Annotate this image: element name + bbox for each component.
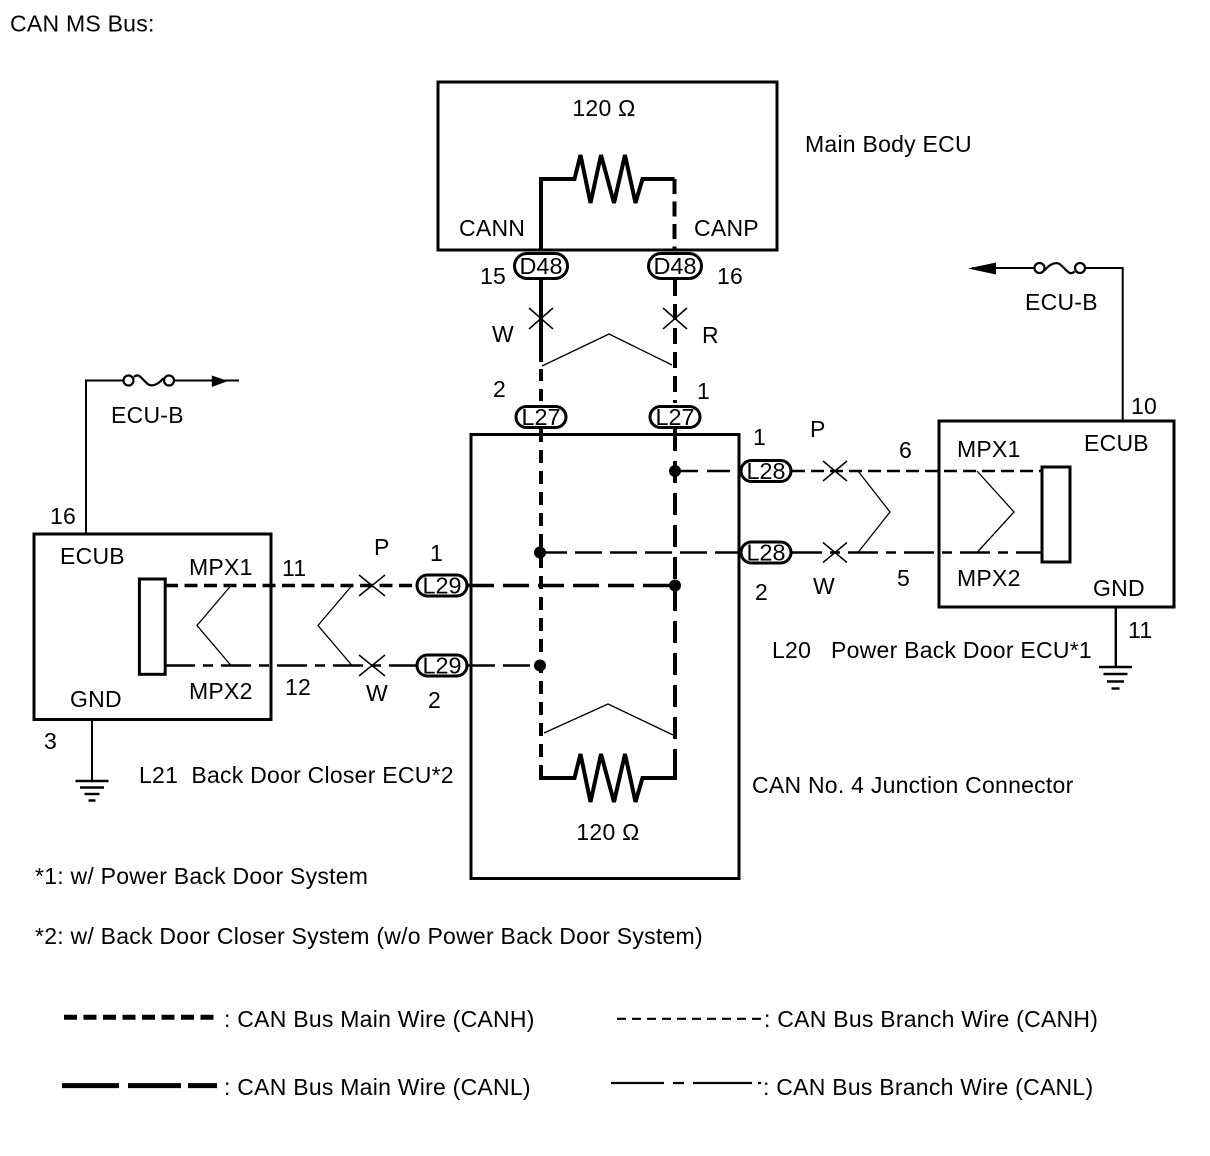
cut mark X on P wire (right) xyxy=(823,461,847,481)
wire with arrow (left fuse) xyxy=(175,380,240,382)
svg-text:15: 15 xyxy=(480,263,506,289)
twisted pair symbol (inside L21) xyxy=(197,586,231,666)
svg-text:L20 Power Back Door ECU*1: L20 Power Back Door ECU*1 xyxy=(772,637,1092,663)
svg-text:1: 1 xyxy=(697,378,710,404)
svg-text:MPX1: MPX1 xyxy=(957,436,1021,462)
main wire to L29 pin2 (CANL, dash-dot) xyxy=(165,664,416,667)
svg-text:W: W xyxy=(813,573,835,599)
svg-text:L28: L28 xyxy=(747,458,786,484)
svg-text:: CAN Bus Main Wire (CANL): : CAN Bus Main Wire (CANL) xyxy=(224,1074,531,1100)
resistor R bottom 120ohm xyxy=(541,754,675,802)
svg-text:R: R xyxy=(702,322,719,348)
branch wire to L28 pin1 (CANH, dashed) xyxy=(675,470,740,473)
branch wire to L28 pin2 (CANL, dash-dot) xyxy=(540,551,740,554)
connector L27 (left, pin2) xyxy=(516,404,566,430)
ground symbol (L20) xyxy=(1099,667,1132,689)
svg-text:L21 Back Door Closer ECU*2: L21 Back Door Closer ECU*2 xyxy=(139,762,454,788)
svg-text:CAN MS Bus:: CAN MS Bus: xyxy=(10,11,155,37)
svg-text:: CAN Bus Main Wire (CANH): : CAN Bus Main Wire (CANH) xyxy=(224,1006,535,1032)
svg-text:: CAN Bus Branch Wire (CANH): : CAN Bus Branch Wire (CANH) xyxy=(764,1006,1098,1032)
ECU box Main Body ECU xyxy=(438,82,777,250)
svg-text:W: W xyxy=(366,680,388,706)
twisted pair symbol (upper) xyxy=(542,334,672,366)
svg-text:P: P xyxy=(374,534,390,560)
wire ECUB supply (L21) xyxy=(86,381,124,535)
svg-text:GND: GND xyxy=(1093,575,1145,601)
cut mark X on W wire (right) xyxy=(823,543,847,563)
svg-text:D48: D48 xyxy=(654,253,697,279)
cut mark X on W wire xyxy=(529,308,553,329)
connector L28 (pin1) xyxy=(741,458,791,484)
legend sample CAN Bus Branch Wire CANL xyxy=(611,1082,761,1084)
svg-text:L28: L28 xyxy=(747,540,786,566)
connector D48 (left) xyxy=(515,253,568,279)
svg-text:Main Body ECU: Main Body ECU xyxy=(805,131,972,157)
wire with arrow (right fuse) xyxy=(972,267,1034,269)
junction node dot (left wire / L29-2) xyxy=(534,660,546,672)
svg-text:ECUB: ECUB xyxy=(60,543,125,569)
wire CANP lead (dashed) xyxy=(673,179,677,250)
junction node dot (left wire / L28-2) xyxy=(534,547,546,559)
fuse symbol ECU-B (right) xyxy=(1035,263,1086,273)
connector D48 (right) xyxy=(649,253,702,279)
svg-text:10: 10 xyxy=(1131,393,1157,419)
twisted pair symbol (inside L20) xyxy=(977,471,1014,553)
junction node dot (right wire / L28-1) xyxy=(669,465,681,477)
svg-text:MPX2: MPX2 xyxy=(957,565,1021,591)
svg-text:CANN: CANN xyxy=(459,215,525,241)
svg-text:L27: L27 xyxy=(656,404,695,430)
svg-text:11: 11 xyxy=(1128,617,1152,643)
connector L29 (pin2) xyxy=(417,653,467,679)
twisted pair symbol (right outer) xyxy=(858,471,890,553)
cut mark X on P wire (left) xyxy=(359,575,385,596)
fuse symbol ECU-B (left) xyxy=(124,375,175,385)
svg-text:L27: L27 xyxy=(522,404,561,430)
svg-text:12: 12 xyxy=(285,674,311,700)
CANL main wire (right vertical in junction box) xyxy=(673,429,677,778)
resistor R top 120ohm xyxy=(541,155,675,250)
wire GND (L21) xyxy=(91,720,93,782)
svg-text:ECUB: ECUB xyxy=(1084,430,1149,456)
internal connector block (L21) xyxy=(139,579,165,674)
svg-text:CANP: CANP xyxy=(694,215,759,241)
legend sample CAN Bus Branch Wire CANH xyxy=(617,1018,762,1020)
cut mark X on W wire (left) xyxy=(359,655,385,676)
svg-text:5: 5 xyxy=(897,565,910,591)
twisted pair symbol (left outer) xyxy=(318,586,352,666)
svg-text:*1: w/ Power Back Door System: *1: w/ Power Back Door System xyxy=(35,863,368,889)
CANH main wire (left vertical in junction box) xyxy=(539,429,543,778)
svg-text:2: 2 xyxy=(428,687,441,713)
wire ECUB supply (L20) xyxy=(1086,268,1123,421)
svg-text:L29: L29 xyxy=(423,573,462,599)
svg-text:: CAN Bus Branch Wire (CANL): : CAN Bus Branch Wire (CANL) xyxy=(763,1074,1093,1100)
legend sample CAN Bus Main Wire CANL xyxy=(62,1083,217,1088)
svg-text:MPX2: MPX2 xyxy=(189,678,253,704)
svg-text:GND: GND xyxy=(70,686,122,712)
ECU box L21 Back Door Closer ECU xyxy=(34,534,271,720)
wire GND (L20) xyxy=(1115,607,1117,667)
ECU box L20 Power Back Door ECU xyxy=(939,421,1174,607)
svg-text:16: 16 xyxy=(50,503,76,529)
svg-text:1: 1 xyxy=(753,424,766,450)
main wire to L29 pin1 (CANH, dashed) xyxy=(165,584,416,587)
twisted pair symbol (lower) xyxy=(544,704,673,735)
connector L27 (right, pin1) xyxy=(650,404,700,430)
svg-text:MPX1: MPX1 xyxy=(189,554,253,580)
connector L28 (pin2) xyxy=(741,540,791,566)
svg-text:120 Ω: 120 Ω xyxy=(576,819,639,845)
svg-text:6: 6 xyxy=(899,437,912,463)
svg-text:CAN No. 4 Junction Connector: CAN No. 4 Junction Connector xyxy=(752,772,1074,798)
svg-text:D48: D48 xyxy=(520,253,563,279)
wire R branch (D48-16 to L27-1) xyxy=(673,280,677,403)
arrowhead (right) xyxy=(968,263,996,275)
svg-text:P: P xyxy=(810,416,826,442)
svg-text:16: 16 xyxy=(717,263,743,289)
junction connector box CAN No. 4 xyxy=(471,435,739,879)
svg-text:2: 2 xyxy=(755,579,768,605)
connector L29 (pin1) xyxy=(417,573,467,599)
svg-text:*2: w/ Back Door Closer System: *2: w/ Back Door Closer System (w/o Powe… xyxy=(35,923,703,949)
legend sample CAN Bus Main Wire CANH xyxy=(64,1015,215,1020)
junction node dot (right wire / L29-1) xyxy=(669,580,681,592)
wire W branch (D48-15 to L27-2) xyxy=(539,280,543,403)
cut mark X on R wire xyxy=(663,308,687,329)
ground symbol (L21) xyxy=(76,781,109,801)
svg-text:2: 2 xyxy=(493,376,506,402)
svg-text:120 Ω: 120 Ω xyxy=(572,95,635,121)
svg-text:3: 3 xyxy=(44,728,57,754)
svg-text:W: W xyxy=(492,321,514,347)
svg-text:1: 1 xyxy=(430,540,443,566)
svg-text:11: 11 xyxy=(282,555,306,581)
arrowhead (left) xyxy=(212,376,228,388)
svg-text:ECU-B: ECU-B xyxy=(111,402,184,428)
internal connector block (L20) xyxy=(1042,467,1070,562)
svg-text:ECU-B: ECU-B xyxy=(1025,289,1098,315)
svg-text:L29: L29 xyxy=(423,653,462,679)
